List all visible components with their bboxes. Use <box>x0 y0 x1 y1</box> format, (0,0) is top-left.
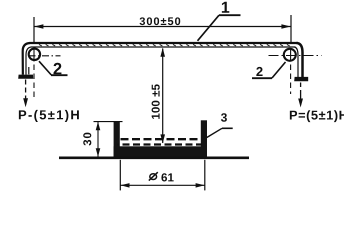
vertical dimension line 100±5 <box>162 49 164 144</box>
arrowhead left of 300±50 <box>34 24 43 29</box>
left hook inner curve <box>26 47 31 75</box>
dimension line 30 <box>97 122 99 157</box>
leader line for item 1 <box>198 15 220 41</box>
dimension ⌀61 left extension line <box>119 160 121 191</box>
label 2 right <box>256 67 262 76</box>
left force line P <box>25 80 27 100</box>
arrowhead up 30 <box>96 122 101 131</box>
arrowhead left ⌀61 <box>121 183 130 188</box>
left hook hub edge <box>28 67 30 74</box>
label 3 <box>221 113 227 122</box>
trough liquid hatch row 2 <box>117 143 202 145</box>
label 2 left <box>53 63 61 75</box>
dimension text 100±5 rotated <box>152 84 160 119</box>
right roller circle item 2 <box>284 49 296 61</box>
trough item 3: left wall <box>114 121 120 157</box>
right roller vertical centerline <box>290 49 292 62</box>
dimension text 61 <box>161 173 173 181</box>
left hook foot <box>18 75 33 79</box>
dimension 300±50 left extension line <box>33 17 35 43</box>
right hook outer curve <box>297 43 303 77</box>
ground line <box>59 156 249 159</box>
beam bottom line <box>31 46 296 48</box>
arrowhead right ⌀61 <box>196 183 205 188</box>
left roller circle item 2 <box>29 49 40 60</box>
arrowhead right of 300±50 <box>281 24 290 29</box>
label 1 <box>222 2 229 13</box>
right force line P <box>300 83 302 91</box>
dimension text 300±50 <box>140 17 181 25</box>
right force label P=(5±1)N <box>290 110 344 122</box>
left roller vertical centerline <box>33 48 35 62</box>
right hook foot <box>294 77 308 81</box>
left force arrowhead <box>23 98 28 107</box>
arrowhead down 100±5 <box>160 134 165 143</box>
dimension text 30 rotated <box>83 133 91 146</box>
trough liquid hatch row 1 <box>121 138 201 140</box>
trough bottom plate <box>114 146 207 157</box>
right force arrowhead <box>298 99 303 108</box>
leader line for left item 2 <box>39 61 51 75</box>
dimension line ⌀61 <box>120 184 205 186</box>
beam hatch ticks <box>39 44 290 46</box>
left roller horizontal centerline <box>29 55 61 57</box>
arrowhead up 100±5 <box>160 48 165 57</box>
dimension 30 extension line <box>94 121 123 123</box>
arrowhead down 30 <box>96 148 101 157</box>
left force label P=(5±1)N <box>19 110 79 122</box>
right hook inner curve <box>295 47 299 77</box>
diameter symbol <box>150 174 157 180</box>
left hook outer curve <box>23 43 30 75</box>
trough right wall <box>201 120 207 156</box>
leader line for item 3 <box>207 128 222 137</box>
right roller horizontal centerline <box>269 55 322 57</box>
dimension ⌀61 right extension line <box>204 160 206 191</box>
leader line for right item 2 <box>272 62 286 78</box>
crossbar item 1: beam top line <box>30 42 299 44</box>
dimension 300±50 right extension line <box>290 15 292 44</box>
dimension line 300±50 <box>34 26 291 28</box>
